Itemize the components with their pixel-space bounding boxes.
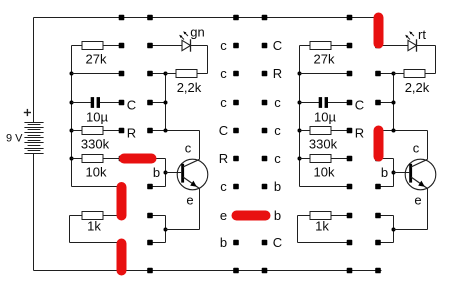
svg-text:10k: 10k — [314, 165, 335, 180]
svg-text:C: C — [127, 98, 136, 113]
svg-text:R: R — [127, 126, 136, 141]
svg-text:b: b — [153, 165, 160, 180]
svg-text:b: b — [381, 165, 388, 180]
svg-text:c: c — [220, 179, 227, 194]
svg-text:R: R — [273, 66, 282, 81]
svg-text:1k: 1k — [315, 219, 329, 234]
svg-text:gn: gn — [190, 25, 204, 40]
svg-text:9 V: 9 V — [6, 133, 23, 145]
svg-text:c: c — [274, 123, 281, 138]
svg-text:rt: rt — [418, 27, 426, 42]
svg-text:C: C — [219, 123, 228, 138]
svg-text:330k: 330k — [81, 137, 110, 152]
svg-text:C: C — [355, 98, 364, 113]
svg-text:c: c — [185, 141, 192, 156]
svg-text:R: R — [219, 151, 228, 166]
svg-text:b: b — [274, 179, 281, 194]
svg-text:c: c — [220, 66, 227, 81]
svg-text:c: c — [220, 95, 227, 110]
svg-text:1k: 1k — [87, 219, 101, 234]
svg-text:e: e — [414, 193, 421, 208]
svg-text:e: e — [220, 208, 227, 223]
svg-text:C: C — [273, 38, 282, 53]
svg-text:10k: 10k — [86, 165, 107, 180]
svg-text:10µ: 10µ — [314, 110, 336, 125]
svg-text:27k: 27k — [314, 52, 335, 67]
svg-text:e: e — [186, 193, 193, 208]
svg-text:c: c — [220, 38, 227, 53]
svg-text:c: c — [274, 151, 281, 166]
svg-text:c: c — [274, 95, 281, 110]
svg-text:C: C — [273, 235, 282, 250]
svg-text:2,2k: 2,2k — [177, 80, 202, 95]
svg-text:10µ: 10µ — [86, 110, 108, 125]
svg-text:27k: 27k — [86, 52, 107, 67]
svg-text:c: c — [413, 141, 420, 156]
svg-text:b: b — [220, 235, 227, 250]
svg-text:R: R — [355, 126, 364, 141]
svg-text:2,2k: 2,2k — [405, 80, 430, 95]
svg-text:330k: 330k — [309, 137, 338, 152]
svg-text:b: b — [274, 208, 281, 223]
